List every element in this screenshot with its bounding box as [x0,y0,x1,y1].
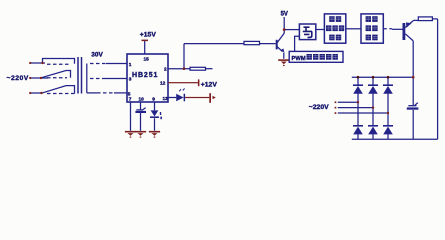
svg-text:+12V: +12V [201,81,218,88]
svg-text:~220V: ~220V [309,104,329,111]
svg-text:HB251: HB251 [132,72,158,79]
svg-text:30V: 30V [91,52,103,59]
svg-text:15: 15 [144,57,150,63]
svg-text:2: 2 [164,67,167,73]
svg-text:1: 1 [129,62,132,68]
svg-text:7: 7 [129,97,132,103]
svg-text:~220V: ~220V [7,75,29,82]
svg-text:PWM: PWM [292,56,306,62]
svg-text:3: 3 [129,77,132,83]
svg-text:5: 5 [128,92,131,98]
svg-text:13: 13 [163,96,169,102]
svg-text:5V: 5V [281,12,288,18]
svg-text:12: 12 [160,81,166,87]
svg-text:9: 9 [152,97,155,103]
svg-text:10: 10 [139,97,145,103]
svg-text:+15V: +15V [140,32,157,39]
